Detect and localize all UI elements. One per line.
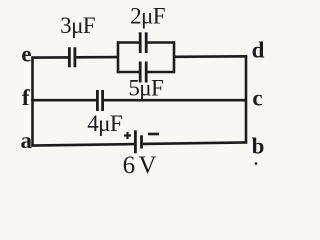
svg-text:c: c [252,85,262,110]
svg-text:a: a [21,128,33,153]
svg-text:6 V: 6 V [123,152,157,179]
svg-text:e: e [21,42,31,67]
svg-text:5μF: 5μF [128,76,163,101]
svg-text:4μF: 4μF [87,111,122,136]
svg-text:d: d [252,38,265,63]
svg-text:f: f [22,85,30,110]
svg-text:b: b [252,134,265,159]
svg-text:3μF: 3μF [60,13,95,38]
svg-text:2μF: 2μF [130,4,165,29]
